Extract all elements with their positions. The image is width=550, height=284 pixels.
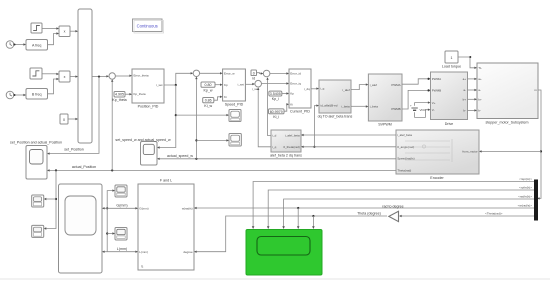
wire A-freq to Product1 xyxy=(48,32,60,44)
svg-text:G(mm): G(mm) xyxy=(116,203,127,207)
wire Kp_i to Current_PID xyxy=(282,92,289,94)
wire Load torque to stepper TL xyxy=(458,56,477,69)
svg-text:Ki_w: Ki_w xyxy=(204,104,212,108)
subsystem Current_PID xyxy=(289,69,311,113)
gain block A-freq xyxy=(26,40,48,51)
svg-text:stepper_motor_Subsystem: stepper_motor_Subsystem xyxy=(486,120,529,124)
subsystem dq TO alef_beta trans xyxy=(318,80,353,118)
wire theta feedback up into dq block xyxy=(313,104,319,147)
svg-text:id_alfa&B-ed: id_alfa&B-ed xyxy=(320,104,338,108)
scope set_speed_w and actual_speed_w (flipped) xyxy=(115,138,171,165)
svg-text:<w(rad/s)>: <w(rad/s)> xyxy=(518,204,533,208)
svg-text:i_alef: i_alef xyxy=(369,83,377,87)
svg-text:<rad/s(h)>: <rad/s(h)> xyxy=(518,195,532,199)
svg-text:i_d: i_d xyxy=(272,134,277,138)
bottom faint rule xyxy=(0,278,550,280)
display L(mm) xyxy=(115,228,127,251)
wire Sum1 to Position_PID xyxy=(115,75,132,77)
bus line 4 to F and L w(rad/s) + green scope xyxy=(194,204,534,229)
wire stepper output down to encoder and bus xyxy=(479,90,542,200)
wire Product1 to Mux xyxy=(70,30,78,32)
wires G/L displays, F and L, big scope trunk xyxy=(102,189,138,252)
svg-text:Error_theta: Error_theta xyxy=(134,74,149,78)
wire Mux out to Sum1 with set_Position branch xyxy=(47,75,109,155)
svg-text:Encoder: Encoder xyxy=(430,176,444,180)
svg-text:i_set: i_set xyxy=(252,87,259,91)
mux Mux1 xyxy=(78,9,92,143)
scope ScopeB actual speed xyxy=(229,134,241,147)
bus line 5 theta to gain xyxy=(399,212,534,218)
DC source VDC xyxy=(410,101,431,117)
svg-text:0.86: 0.86 xyxy=(205,99,212,103)
svg-text:Continuous: Continuous xyxy=(137,24,158,29)
svg-text:1: 1 xyxy=(451,56,453,60)
wires Drive outputs to stepper inputs xyxy=(468,78,478,112)
sum junction Sum2 xyxy=(193,70,199,76)
wire alef_beta2dq i_d up to Sum3 xyxy=(266,77,271,135)
svg-text:V+: V+ xyxy=(432,101,436,105)
svg-text:60.9979: 60.9979 xyxy=(270,110,283,114)
subsystem Encoder (flipped) xyxy=(396,130,479,180)
wire Ki_i to Current_PID xyxy=(284,103,289,111)
wire speed feedback: Encoder Speed to scope and Sum2 xyxy=(157,77,396,161)
wire clock2 to B-freq xyxy=(14,94,27,96)
wire Ki_w to Speed_PID xyxy=(214,96,223,101)
subsystem Speed_PID xyxy=(223,69,246,107)
svg-text:Theta(rad): Theta(rad) xyxy=(397,169,411,173)
constant 0 xyxy=(60,114,68,124)
svg-text:set_Position and actual_Positi: set_Position and actual_Position xyxy=(10,140,62,144)
bus line 3 to green scope xyxy=(282,195,534,229)
svg-text:from_motor: from_motor xyxy=(462,150,477,154)
subsystem SVPWM xyxy=(368,74,402,126)
subsystem stepper_motor_Subsystem xyxy=(477,63,538,124)
constant Load torque xyxy=(442,51,461,69)
product Product2 xyxy=(59,71,70,82)
display G(mm) xyxy=(115,185,128,207)
svg-text:PWMB: PWMB xyxy=(432,89,441,93)
svg-text:<rp/ts(h)>: <rp/ts(h)> xyxy=(519,186,532,190)
svg-text:b-: b- xyxy=(478,109,481,113)
wire position feedback: Encoder Theta to scope1 and Sum1 xyxy=(44,79,396,230)
wire alef_beta2dq i_q up to Sum4 xyxy=(257,87,271,146)
constant Ki_i value 60.9979 xyxy=(269,109,285,119)
svg-text:PWMB: PWMB xyxy=(391,107,400,111)
clock Clock1 xyxy=(6,41,14,49)
svg-text:Error_w: Error_w xyxy=(224,72,235,76)
svg-text:b+: b+ xyxy=(463,98,467,102)
wire Speed_PID out to Sum4 xyxy=(245,83,255,85)
svg-text:set_Position: set_Position xyxy=(64,148,84,152)
subsystem Drive xyxy=(431,72,468,126)
green scope block xyxy=(246,230,322,276)
sum junction Sum1 xyxy=(109,73,115,79)
svg-text:0: 0 xyxy=(63,118,65,122)
svg-text:rad to degree: rad to degree xyxy=(382,205,403,209)
svg-text:set_speed_w and actual_speed_w: set_speed_w and actual_speed_w xyxy=(115,138,171,142)
svg-text:Ki: Ki xyxy=(224,95,227,99)
svg-text:b-: b- xyxy=(463,109,466,113)
svg-text:Ki_i: Ki_i xyxy=(273,115,279,119)
wire Kp_w to Speed_PID xyxy=(215,84,223,86)
svg-text:Ki: Ki xyxy=(290,103,293,107)
wire i_set from Position_PID to Sum2 / speed scope / scopeA xyxy=(157,72,229,149)
svg-text:i_set: i_set xyxy=(156,83,163,87)
svg-text:A freq: A freq xyxy=(32,43,41,47)
svg-text:actual_speed_w: actual_speed_w xyxy=(167,154,193,158)
wire constant0 to Mux xyxy=(68,118,78,120)
constant id_set 0 xyxy=(251,70,257,81)
svg-text:b+: b+ xyxy=(478,98,482,102)
wire clock1 to A-freq xyxy=(14,43,27,45)
wire Step1 to Product1 xyxy=(42,27,59,29)
wire Current_PID i_dq to dq block xyxy=(311,87,319,89)
svg-text:id: id xyxy=(252,77,255,81)
svg-text:V-: V- xyxy=(432,108,435,112)
big scope display xyxy=(59,184,103,273)
svg-text:PWMA: PWMA xyxy=(432,77,441,81)
svg-text:Theta (degree): Theta (degree) xyxy=(357,212,381,216)
wire B-freq to Product2 xyxy=(48,78,60,94)
svg-text:Load torque: Load torque xyxy=(442,65,461,69)
svg-text:L(mm): L(mm) xyxy=(139,250,148,254)
svg-text:alef_beta 2 dq trans: alef_beta 2 dq trans xyxy=(270,153,302,157)
bus line 2 to green scope xyxy=(267,186,534,229)
product Product1 xyxy=(59,26,70,37)
svg-text:w(rad/s): w(rad/s) xyxy=(182,207,193,211)
svg-text:x: x xyxy=(64,30,66,34)
svg-text:a-: a- xyxy=(463,88,466,92)
wire SVPWM PWMA to Drive xyxy=(402,78,431,85)
svg-text:4.905: 4.905 xyxy=(115,93,124,97)
bus line 1 to green scope xyxy=(252,177,534,229)
display block small A (flipped) xyxy=(32,195,44,207)
sum junction Sum4 xyxy=(255,80,262,87)
svg-text:3.5405: 3.5405 xyxy=(270,92,281,96)
gain rad to degree (points left) xyxy=(382,205,403,222)
svg-text:Position_PID: Position_PID xyxy=(138,105,159,109)
svg-text:i_set: i_set xyxy=(237,83,244,87)
svg-text:VDC: VDC xyxy=(420,108,427,112)
svg-text:a+: a+ xyxy=(478,77,482,81)
wire Sum2 to Speed_PID xyxy=(200,72,223,74)
svg-text:0: 0 xyxy=(253,71,255,75)
svg-text:degree: degree xyxy=(183,250,193,254)
powergui Continuous xyxy=(133,19,164,33)
svg-text:i_alef_beta: i_alef_beta xyxy=(397,133,412,137)
svg-text:TL: TL xyxy=(478,66,482,70)
clock Clock2 xyxy=(6,91,14,99)
svg-text:Kp_w: Kp_w xyxy=(204,88,213,92)
svg-text:G(mm): G(mm) xyxy=(139,207,148,211)
svg-text:Kp: Kp xyxy=(224,83,228,87)
wire dq i_beta to SVPWM xyxy=(351,105,368,107)
constant Kp_i value 3.5405 xyxy=(269,91,282,101)
wire SVPWM PWMB to Drive xyxy=(402,89,431,109)
wire gain out to green scope and F and L degree xyxy=(194,212,387,253)
svg-text:0_theta(rad): 0_theta(rad) xyxy=(283,145,299,149)
svg-text:i_alef: i_alef xyxy=(342,88,350,92)
wire Step2 to Product2 xyxy=(42,73,59,75)
subsystem alef_beta 2 dq trans (flipped) xyxy=(270,130,302,157)
wire dq i_alef to SVPWM xyxy=(351,83,368,89)
svg-text:B freq: B freq xyxy=(32,92,42,96)
wire Encoder i_alef_beta to alef_beta2dq xyxy=(301,134,396,136)
step source Step1 xyxy=(31,23,42,33)
subsystem F and L xyxy=(138,179,194,270)
svg-text:a+: a+ xyxy=(463,77,467,81)
display block small B (flipped) xyxy=(32,225,44,237)
scope set_Position and actual_Position (flipped) xyxy=(10,140,62,179)
sum junction Sum3 xyxy=(263,70,270,77)
scope ScopeA set current xyxy=(229,110,241,122)
svg-text:i_q: i_q xyxy=(320,87,325,91)
svg-text:L(mm): L(mm) xyxy=(117,247,127,251)
svg-text:F and L: F and L xyxy=(160,179,172,183)
svg-text:Kp_theta: Kp_theta xyxy=(134,92,146,96)
svg-text:i_q: i_q xyxy=(272,145,277,149)
constant Ki_w value 0.86 xyxy=(203,98,214,108)
svg-text:x: x xyxy=(64,75,66,79)
constant Kp_theta value 4.905 xyxy=(112,92,126,103)
svg-text:Error_iq: Error_iq xyxy=(290,82,301,86)
svg-text:dq TO alef_beta trans: dq TO alef_beta trans xyxy=(318,114,353,118)
bus selector bar (black) xyxy=(534,180,538,221)
svg-text:Error_id: Error_id xyxy=(290,72,301,76)
wire const id to Sum3 xyxy=(257,72,264,74)
svg-text:+: + xyxy=(410,104,412,108)
svg-text:Drive: Drive xyxy=(445,122,453,126)
wire Encoder angle to alef_beta2dq (theta) xyxy=(301,146,396,148)
svg-text:Speed_PID: Speed_PID xyxy=(225,103,244,107)
step source Step2 xyxy=(30,68,42,79)
svg-text:i_alef_beta: i_alef_beta xyxy=(285,134,300,138)
svg-text:<rspi(m)>: <rspi(m)> xyxy=(519,177,532,181)
svg-text:i_beta: i_beta xyxy=(369,105,378,109)
wire Sum4 to Current_PID xyxy=(262,82,290,84)
svg-text:Kp: Kp xyxy=(290,92,294,96)
wire Sum3 to Current_PID xyxy=(270,72,289,74)
constant Kp_w value 0.80 xyxy=(201,82,215,92)
svg-text:i_dq: i_dq xyxy=(304,87,310,91)
svg-text:<Theta(rad)>: <Theta(rad)> xyxy=(485,212,503,216)
svg-text:a-: a- xyxy=(478,88,481,92)
subsystem Position_PID xyxy=(132,69,164,109)
svg-text:Kp_theta: Kp_theta xyxy=(112,98,126,102)
svg-text:SVPWM: SVPWM xyxy=(378,122,392,126)
wire Kp_theta const to Position_PID xyxy=(125,93,132,95)
svg-text:0.80: 0.80 xyxy=(205,83,212,87)
gain block B-freq xyxy=(26,89,48,100)
svg-text:PWMA: PWMA xyxy=(391,83,400,87)
wire Product2 to Mux xyxy=(70,75,78,77)
svg-text:Kp_i: Kp_i xyxy=(272,97,279,101)
svg-text:Current_PID: Current_PID xyxy=(290,109,310,113)
svg-text:actual_Position: actual_Position xyxy=(72,165,96,169)
svg-text:i_beta: i_beta xyxy=(341,104,350,108)
